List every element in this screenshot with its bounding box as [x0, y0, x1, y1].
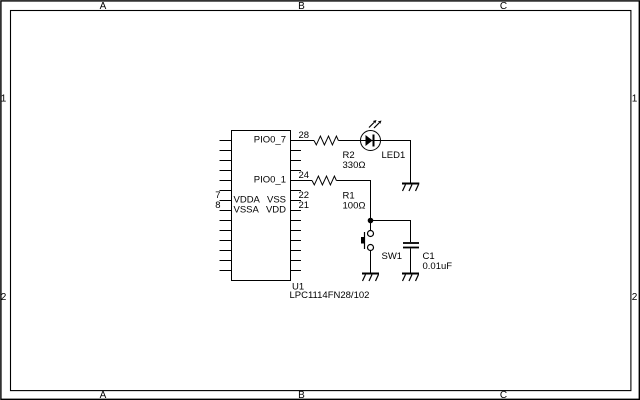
- svg-text:B: B: [298, 390, 305, 400]
- wire C1 to ground: [410, 249, 412, 274]
- wire pin24 to R1: [291, 180, 313, 182]
- svg-text:A: A: [100, 1, 107, 12]
- svg-text:1: 1: [632, 94, 638, 105]
- wire R1 to corner down to SW1: [336, 181, 370, 231]
- svg-text:0.01uF: 0.01uF: [423, 261, 453, 272]
- svg-text:2: 2: [632, 292, 638, 303]
- svg-text:VSSA: VSSA: [234, 205, 260, 216]
- capacitor C1 bottom plate: [403, 247, 419, 249]
- svg-text:330Ω: 330Ω: [343, 160, 366, 171]
- svg-text:8: 8: [215, 200, 220, 211]
- LED cathode bar: [373, 135, 375, 147]
- IC U1 body: [232, 131, 291, 281]
- LED triangle anode: [366, 135, 373, 146]
- svg-text:PIO0_1: PIO0_1: [254, 175, 286, 186]
- LED LED1 circle: [361, 131, 381, 151]
- svg-text:VDD: VDD: [266, 205, 286, 216]
- LED arrow 1: [369, 120, 377, 128]
- svg-text:24: 24: [299, 170, 310, 181]
- ground under C1: [402, 274, 419, 282]
- switch SW1 bottom contact circle: [368, 245, 374, 251]
- junction node dot: [368, 218, 374, 224]
- svg-text:B: B: [298, 1, 305, 12]
- svg-text:21: 21: [299, 200, 310, 211]
- capacitor C1 top plate: [403, 242, 419, 244]
- U1 right pins 27,26,25,23,22,21,20,19,18,17,16,15 stubs: [291, 151, 302, 271]
- wire R2 to LED1: [338, 140, 360, 142]
- svg-text:100Ω: 100Ω: [343, 201, 366, 212]
- svg-text:C: C: [500, 1, 507, 12]
- svg-text:SW1: SW1: [382, 251, 403, 262]
- svg-text:28: 28: [299, 130, 310, 141]
- wire pin28 to R2: [291, 140, 315, 142]
- wire junction to C1: [371, 221, 411, 243]
- switch SW1 top contact circle: [368, 231, 374, 237]
- switch SW1 button cap: [361, 237, 365, 244]
- U1 left pins 1-14: [220, 141, 232, 271]
- svg-text:LED1: LED1: [382, 150, 406, 161]
- svg-text:A: A: [100, 390, 107, 400]
- wire through LED: [361, 140, 381, 142]
- LED arrow 2: [374, 121, 382, 129]
- svg-text:PIO0_7: PIO0_7: [254, 135, 286, 146]
- svg-text:LPC1114FN28/102: LPC1114FN28/102: [290, 290, 370, 301]
- ground under LED1: [402, 184, 419, 192]
- resistor R1: [312, 176, 336, 185]
- wire LED1 to ground corner: [381, 141, 411, 184]
- svg-text:C: C: [500, 390, 507, 400]
- ground under SW1: [362, 274, 379, 282]
- svg-text:2: 2: [1, 292, 7, 303]
- svg-text:1: 1: [1, 94, 7, 105]
- resistor R2: [314, 136, 338, 145]
- wire SW1 to ground: [370, 251, 372, 274]
- switch SW1 actuator bar: [364, 232, 366, 249]
